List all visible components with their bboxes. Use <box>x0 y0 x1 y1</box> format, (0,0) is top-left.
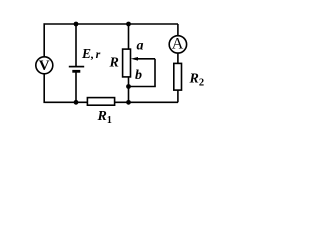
svg-text:V: V <box>39 58 50 74</box>
node bottom rheostat <box>126 100 131 105</box>
wire top rail <box>45 23 178 25</box>
wire wiper to node <box>129 86 156 88</box>
wire wiper vertical <box>154 59 156 87</box>
wire battery branch upper <box>75 24 77 67</box>
resistor R (rheostat body) <box>123 49 131 77</box>
wire battery branch lower <box>75 71 77 102</box>
resistor R1 <box>87 98 114 106</box>
svg-text:R1: R1 <box>97 109 112 126</box>
node top rheostat <box>126 22 131 27</box>
svg-text:b: b <box>135 68 142 83</box>
wire right branch <box>177 24 179 102</box>
svg-text:R: R <box>109 56 119 71</box>
wire left branch <box>43 23 45 103</box>
wire rheostat branch <box>128 24 130 102</box>
node bottom battery <box>74 100 79 105</box>
resistor R2 <box>174 63 182 90</box>
wire bottom rail <box>45 101 178 103</box>
node top battery <box>74 22 79 27</box>
svg-text:a: a <box>137 39 144 54</box>
node wiper junction <box>126 84 131 89</box>
ammeter A1 <box>169 36 186 53</box>
wiper arrow <box>131 57 155 61</box>
svg-text:E,r: E,r <box>81 46 101 61</box>
svg-text:R2: R2 <box>189 71 205 88</box>
battery E,r <box>69 67 84 72</box>
svg-text:A: A <box>172 36 184 53</box>
voltmeter V1 <box>36 57 53 74</box>
